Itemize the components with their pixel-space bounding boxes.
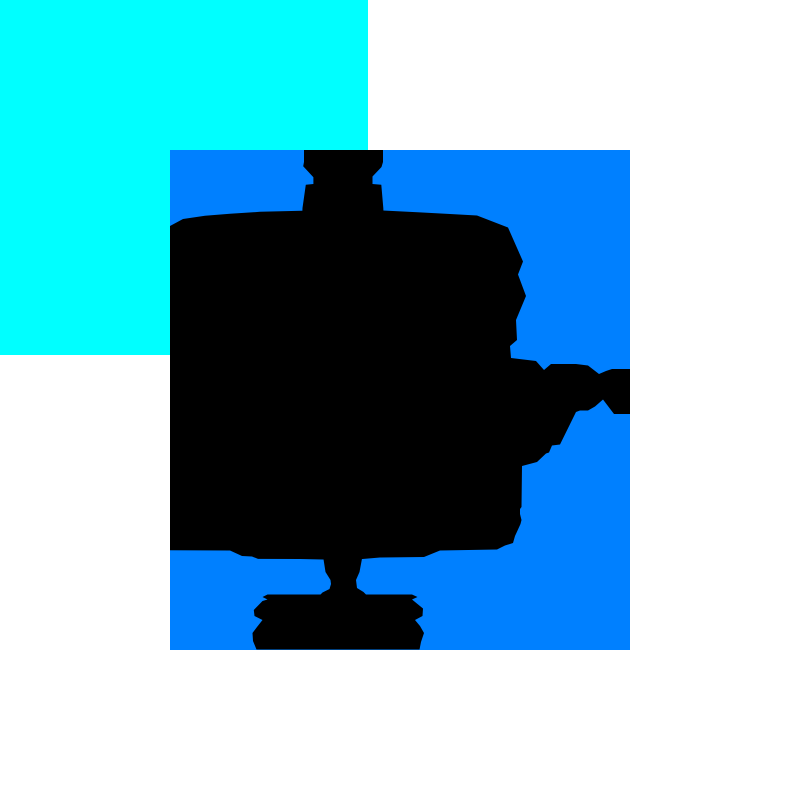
- body with spout and tap: [170, 211, 630, 560]
- knob and lid collar: [302, 150, 383, 213]
- base plate and foot block: [253, 595, 425, 650]
- samovar icon: [170, 150, 630, 650]
- blue square: [170, 150, 630, 650]
- cyan square: [0, 0, 368, 355]
- pedestal stem: [320, 556, 367, 595]
